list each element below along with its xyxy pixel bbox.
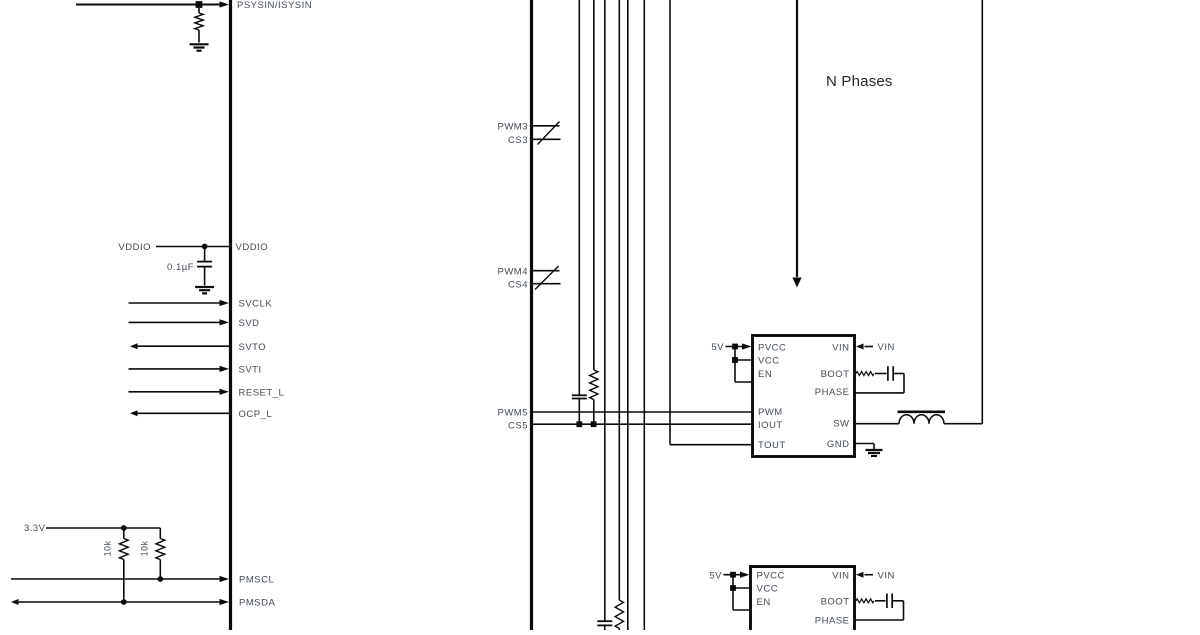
svg-text:GND: GND [827,439,850,450]
svg-text:OCP_L: OCP_L [239,409,273,420]
wire 5V branch (U3) [732,575,734,610]
svg-text:PWM: PWM [758,407,783,418]
wire PMSCL [11,578,222,580]
svg-text:VIN: VIN [832,570,849,581]
wire bus line 3 (CS6 filter cap branch) [604,0,606,621]
capacitor C2 (CS5 filter) [572,394,587,396]
resistor R4 (CS5 series) [590,370,598,400]
wire 3.3V rail [46,527,160,529]
node 3.3V junction [121,525,127,531]
svg-text:CS5: CS5 [508,420,528,431]
node PSYSIN junction [196,1,203,8]
node PMSCL junction [157,576,163,582]
wire VCC (U3) [733,587,750,589]
wire bus line 4 (CS6 series res branch) [618,0,620,600]
node 5V junction (U2) [732,344,738,350]
wire PWM3 stub [533,125,560,127]
svg-text:PVCC: PVCC [757,570,785,581]
svg-text:CS4: CS4 [508,279,528,290]
wire bus line 5 [627,0,629,632]
ground GND1 [190,43,209,45]
wire VDDIO [156,246,230,248]
svg-text:SVCLK: SVCLK [239,299,273,310]
svg-text:VCC: VCC [758,356,780,367]
svg-text:EN: EN [757,597,771,608]
N Phases arrow [796,0,798,277]
svg-text:IOUT: IOUT [758,420,783,431]
wire boot cap to PHASE (U2) [893,373,904,375]
wire VIN input (U2) [856,344,864,350]
svg-text:EN: EN [758,369,772,380]
svg-text:BOOT: BOOT [821,369,850,380]
controller IC U1 right edge [530,0,533,632]
wire CS4 stub [533,283,561,285]
capacitor C3 (CS6 filter) [597,620,612,622]
svg-text:VIN: VIN [878,342,895,353]
svg-text:RESET_L: RESET_L [239,387,285,398]
wire PMSDA [18,601,222,603]
svg-text:PMSCL: PMSCL [239,575,274,586]
wire SW (U2) [855,423,899,425]
wire TOUT [670,444,754,446]
svg-text:PWM3: PWM3 [498,121,529,132]
wire 5V to PVCC (U3) [724,574,743,576]
wire CS5 [533,423,754,425]
wire VOUT rail [981,0,983,424]
node VDDIO junction [202,244,208,250]
svg-text:BOOT: BOOT [821,596,850,607]
svg-text:3.3V: 3.3V [24,523,46,534]
capacitor C1 0.1uF [204,247,206,262]
node CS5 res junction [591,421,597,427]
node CS5 cap junction [576,421,582,427]
node PMSDA junction [121,599,127,605]
node VCC junction (U2) [732,357,738,363]
svg-text:VDDIO: VDDIO [236,242,269,253]
node VCC junction (U3) [730,585,736,591]
capacitor C4 boot (U2) [887,366,889,381]
ground GND3 (U2) [866,449,883,451]
resistor R6 boot (U2) [856,372,874,376]
wire EN (U3) [733,609,750,611]
svg-text:VDDIO: VDDIO [118,242,151,253]
wire SVCLK [129,302,223,304]
resistor R3 10k (PMSCL pullup) [159,528,161,539]
wire PSYSIN input [76,4,222,6]
svg-text:VCC: VCC [757,584,779,595]
resistor R2 10k (PMSDA pullup) [123,528,125,539]
wire boot (U2) [875,373,887,375]
wire boot (U3) [875,600,886,602]
inductor L1 (U2) [898,410,946,413]
svg-text:PWM5: PWM5 [498,408,529,419]
wire RESET_L [129,391,223,393]
svg-text:PHASE: PHASE [815,616,850,627]
svg-text:TOUT: TOUT [758,440,786,451]
wire bus line 2 (CS5 series res branch) [593,0,595,370]
bus continuation slash (PWM4/CS4) [535,266,559,290]
resistor R5 (CS6 series) [615,600,623,629]
svg-text:10k: 10k [140,541,150,557]
node 5V junction (U3) [730,572,736,578]
wire OCP_L [137,412,230,414]
wire bus line 7 / TOUT net [669,0,671,445]
wire SVTO [137,345,230,347]
svg-text:VIN: VIN [878,570,895,581]
svg-text:PHASE: PHASE [815,387,850,398]
svg-text:CS3: CS3 [508,135,528,146]
svg-text:PMSDA: PMSDA [239,598,275,609]
svg-text:SVTO: SVTO [239,342,267,353]
power stage U2 body [753,336,855,457]
wire GND (U2) [855,443,874,445]
bus continuation slash (PWM3/CS3) [538,122,560,145]
wire 5V branch (U2) [734,347,736,383]
resistor R7 boot (U3) [856,599,874,603]
svg-text:N Phases: N Phases [826,73,893,90]
svg-text:PWM4: PWM4 [498,266,529,277]
svg-text:SVD: SVD [239,318,260,329]
resistor R1 (PSYSIN divider) [198,8,200,13]
wire VIN input (U3) [856,572,864,578]
svg-text:PSYSIN/ISYSIN: PSYSIN/ISYSIN [237,0,312,11]
svg-text:0.1µF: 0.1µF [167,262,194,273]
wire CS3 stub [533,138,561,140]
svg-text:5V: 5V [711,342,724,353]
power stage U3 body (partial) [751,567,855,635]
wire bus line 1 (CS5 filter cap branch) [578,0,580,395]
svg-text:SVTI: SVTI [239,365,262,376]
wire PWM4 stub [533,270,560,272]
wire SVTI [129,368,223,370]
wire SVD [129,321,223,323]
capacitor C5 boot (U3) [886,594,888,609]
ground GND2 [195,286,214,288]
svg-text:SW: SW [833,419,849,430]
wire EN (U2) [735,381,752,383]
svg-text:10k: 10k [103,541,113,557]
svg-text:VIN: VIN [832,343,849,354]
wire bus line 6 [643,0,645,632]
wire boot cap to PHASE (U3) [892,600,903,602]
wire 5V to PVCC (U2) [726,346,745,348]
svg-text:5V: 5V [709,570,722,581]
svg-text:PVCC: PVCC [758,343,786,354]
controller IC U1 left edge [229,0,232,632]
wire PWM5 [533,411,754,413]
wire VCC (U2) [735,359,752,361]
wire SW to VOUT (U2) [944,423,982,425]
